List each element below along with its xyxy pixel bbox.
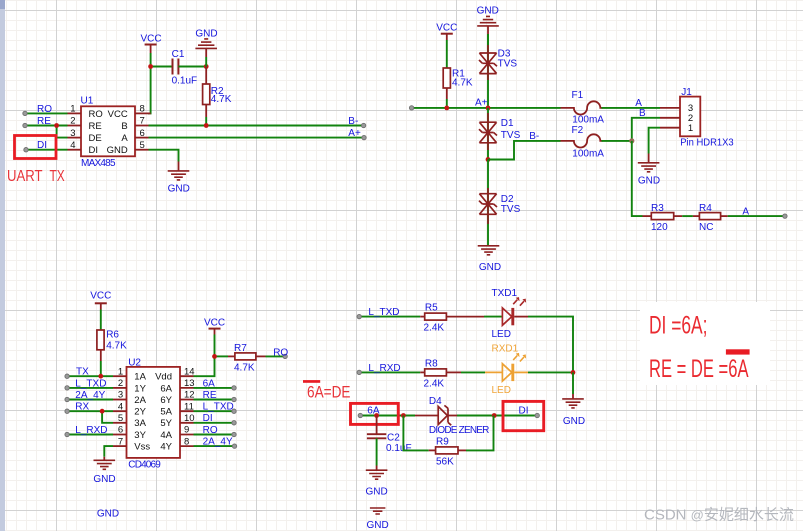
- U1 pin 1: [68, 104, 103, 120]
- svg-text:DI =6A;: DI =6A;: [649, 312, 708, 340]
- wire orange lead into LED: [485, 371, 502, 373]
- wire B- jog to F2: [488, 141, 561, 160]
- annotation red box around DI: [503, 401, 544, 430]
- wire 2A_4Y input: [67, 399, 113, 401]
- svg-text:120: 120: [651, 222, 668, 233]
- J1 pin 1: [660, 123, 693, 134]
- wire DI output: [194, 422, 235, 424]
- wire R4 to A endpoint: [728, 215, 785, 217]
- capacitor C2: [367, 416, 412, 455]
- svg-text:4A: 4A: [160, 430, 172, 441]
- wire C1 right to R2 node: [178, 66, 206, 68]
- svg-text:NC: NC: [699, 222, 713, 233]
- svg-text:GND: GND: [479, 262, 501, 273]
- svg-text:UART: UART: [7, 168, 43, 185]
- svg-text:GND: GND: [477, 6, 499, 17]
- svg-text:VCC: VCC: [108, 109, 128, 120]
- svg-text:DIODE ZENER: DIODE ZENER: [429, 425, 490, 436]
- svg-text:C1: C1: [172, 49, 185, 60]
- svg-text:R6: R6: [106, 330, 119, 341]
- svg-text:2.4K: 2.4K: [424, 323, 445, 334]
- svg-text:4.7K: 4.7K: [106, 341, 127, 352]
- svg-text:7: 7: [140, 116, 145, 127]
- node A+ endpoint: [362, 135, 366, 139]
- svg-text:DI: DI: [89, 145, 99, 156]
- svg-text:GND: GND: [195, 28, 217, 39]
- resistor R6: [97, 330, 127, 362]
- svg-text:RE: RE: [203, 390, 217, 401]
- svg-text:3: 3: [118, 390, 123, 401]
- junction D-column/A+: [486, 106, 491, 111]
- svg-text:0.1uF: 0.1uF: [386, 443, 412, 454]
- node RE endpoint (U2): [232, 397, 236, 401]
- resistor R3: [643, 203, 683, 233]
- wire RO output: [194, 434, 235, 436]
- wire pin7 to ground: [104, 446, 113, 457]
- wire VCC to R1: [446, 40, 448, 68]
- svg-text:L_TXD: L_TXD: [75, 378, 106, 389]
- svg-text:8: 8: [140, 104, 145, 115]
- node A+ line left endpoint: [409, 106, 413, 110]
- svg-text:4.7K: 4.7K: [452, 78, 473, 89]
- node RX endpoint: [65, 409, 69, 413]
- wire R8 to LED RXD1: [461, 371, 485, 373]
- svg-text:L_TXD: L_TXD: [203, 402, 234, 413]
- wire R9 branch down-left: [403, 416, 428, 451]
- wire F2 to B junction: [602, 140, 632, 142]
- junction B net: [629, 138, 634, 143]
- wire RE input: [25, 125, 68, 127]
- annotation white panel (right): [640, 302, 770, 385]
- U2 pin 6: [113, 425, 189, 441]
- svg-text:A: A: [742, 206, 749, 217]
- svg-text:TXD1: TXD1: [492, 288, 518, 299]
- svg-text:2Y: 2Y: [134, 407, 146, 418]
- svg-text:D1: D1: [501, 118, 514, 129]
- wire R7 to RO endpoint: [266, 355, 286, 357]
- svg-text:2: 2: [118, 378, 123, 389]
- junction at C1/R2/GND: [204, 64, 209, 69]
- svg-text:6: 6: [140, 128, 145, 139]
- wire GND to D3: [487, 34, 489, 45]
- node L_TXD endpoint (LED): [357, 314, 361, 318]
- junction RX/pin5: [100, 409, 105, 414]
- resistor R7: [228, 343, 266, 374]
- wire VCC to R7 node: [214, 335, 216, 357]
- svg-text:R7: R7: [234, 343, 247, 354]
- svg-text:2.4K: 2.4K: [424, 379, 445, 390]
- annotation red box around 6A: [351, 403, 399, 424]
- node TX endpoint: [65, 374, 69, 378]
- wire LED TXD1 lead: [514, 316, 528, 318]
- svg-text:L_RXD: L_RXD: [368, 363, 400, 374]
- svg-text:TVS: TVS: [501, 130, 521, 141]
- svg-text:R4: R4: [699, 203, 712, 214]
- svg-text:RE: RE: [89, 121, 102, 132]
- svg-text:1Y: 1Y: [134, 383, 146, 394]
- svg-text:VCC: VCC: [90, 291, 111, 302]
- svg-text:2A_4Y: 2A_4Y: [203, 437, 233, 448]
- diode D2 TVS: [479, 160, 521, 246]
- svg-text:B: B: [639, 108, 646, 119]
- wire A+ from pin6: [149, 137, 365, 139]
- wire R1 to A+ line: [446, 99, 448, 108]
- wire column to ground: [572, 372, 574, 394]
- svg-text:100mA: 100mA: [572, 115, 604, 126]
- svg-text:TVS: TVS: [498, 58, 518, 69]
- ground (below D2): [478, 246, 501, 273]
- resistor R2: [203, 67, 232, 118]
- svg-text:GND: GND: [107, 145, 128, 156]
- annotation overbar (RE=DE=6A): [726, 349, 750, 354]
- wire VCC node down to U1 pin8: [148, 67, 151, 114]
- connector J1 body: [680, 87, 734, 149]
- svg-text:F1: F1: [572, 90, 584, 101]
- wire TXD1 to GND column: [528, 317, 573, 373]
- svg-text:TX: TX: [50, 168, 65, 185]
- wire pin5 to ground: [149, 150, 179, 162]
- svg-text:3A: 3A: [134, 418, 146, 429]
- svg-text:RX: RX: [75, 402, 89, 413]
- svg-text:5A: 5A: [160, 407, 172, 418]
- svg-text:LED: LED: [492, 329, 511, 340]
- U1 pin 6: [121, 128, 148, 144]
- wire LED RXD1 lead: [514, 371, 528, 373]
- svg-text:A+: A+: [348, 128, 361, 139]
- U1 pin 2: [68, 116, 102, 132]
- wire VCC to C1 node: [150, 53, 152, 67]
- svg-text:DI: DI: [519, 406, 529, 417]
- svg-text:GND: GND: [168, 183, 190, 194]
- power port VCC (above R1): [436, 22, 457, 40]
- wire RX to pin5 jog: [102, 411, 113, 423]
- node 2A_4Y endpoint (U2): [232, 444, 236, 448]
- node RO endpoint (U2): [232, 432, 236, 436]
- resistor R4: [693, 203, 728, 233]
- svg-text:GND: GND: [563, 416, 585, 427]
- svg-text:DI: DI: [37, 140, 47, 151]
- node 6A endpoint (bottom): [358, 413, 362, 417]
- node DI endpoint (bottom): [535, 413, 539, 417]
- svg-text:1A: 1A: [134, 372, 146, 383]
- svg-text:U1: U1: [81, 95, 94, 106]
- svg-text:3: 3: [70, 128, 75, 139]
- U2 pin 2: [113, 378, 195, 394]
- svg-text:DE: DE: [89, 133, 102, 144]
- wire D4 to DI endpoint: [457, 415, 537, 417]
- wire 6A row left: [360, 415, 415, 417]
- power port VCC (top-left): [140, 34, 161, 54]
- ground (bottom stray): [366, 508, 388, 531]
- LED TXD1: [492, 288, 527, 340]
- node L_RXD endpoint: [65, 432, 69, 436]
- capacitor C1: [172, 49, 198, 87]
- svg-text:5Y: 5Y: [160, 418, 172, 429]
- svg-text:100mA: 100mA: [572, 149, 604, 160]
- node RO endpoint: [23, 111, 27, 115]
- svg-text:RO: RO: [203, 425, 218, 436]
- transistor-array U2 CD4069 body: [127, 358, 181, 471]
- svg-text:6: 6: [118, 425, 123, 436]
- power port GND (above D3, inverted): [477, 6, 499, 34]
- svg-text:VCC: VCC: [436, 22, 457, 33]
- svg-text:A: A: [635, 98, 642, 109]
- U2 pin 4: [113, 401, 194, 417]
- svg-text:C2: C2: [387, 433, 400, 444]
- svg-text:GND: GND: [366, 520, 388, 531]
- junction VCC/R7: [212, 354, 217, 359]
- wire 6A output: [194, 387, 235, 389]
- svg-text:Vss: Vss: [134, 442, 150, 453]
- node 6A endpoint: [232, 386, 236, 390]
- wire C1 left: [151, 66, 172, 68]
- svg-text:4.7K: 4.7K: [211, 94, 232, 105]
- wire TX input: [67, 375, 113, 377]
- wire node to R7: [215, 355, 229, 357]
- wire A+ line: [412, 107, 561, 109]
- junction R6/TX: [98, 374, 103, 379]
- wire R3 to R4: [682, 215, 693, 217]
- annotation overbar (6A=DE): [303, 380, 320, 383]
- resistor R8: [420, 358, 461, 389]
- svg-text:TX: TX: [76, 367, 89, 378]
- wire R2 bottom to B line: [205, 117, 207, 126]
- svg-text:R5: R5: [425, 303, 438, 314]
- wire RE-DE tie: [57, 126, 68, 138]
- svg-text:CD4069: CD4069: [128, 460, 161, 471]
- wire 2A_4Y output: [194, 445, 235, 447]
- node L_RXD endpoint (LED): [357, 370, 361, 374]
- wire R6 to TX line: [100, 361, 102, 376]
- LED RXD1: [492, 344, 527, 396]
- svg-text:4.7K: 4.7K: [234, 363, 255, 374]
- svg-text:6A=DE: 6A=DE: [307, 384, 351, 402]
- wire L_RXD input: [67, 434, 113, 436]
- svg-text:1: 1: [688, 123, 693, 134]
- wire R9 up to DI row: [466, 416, 494, 451]
- svg-text:6A: 6A: [203, 378, 216, 389]
- svg-text:4: 4: [118, 401, 123, 412]
- node L_TXD endpoint: [65, 386, 69, 390]
- svg-text:Pin HDR1X3: Pin HDR1X3: [680, 138, 734, 149]
- node 2A_4Y endpoint: [65, 397, 69, 401]
- svg-text:3Y: 3Y: [134, 430, 146, 441]
- wire DI input: [26, 149, 68, 151]
- svg-text:VCC: VCC: [140, 34, 161, 45]
- U2 pin 7: [113, 436, 189, 452]
- wire J1 pin1 to ground: [649, 128, 660, 154]
- diode D4 zener: [415, 396, 489, 436]
- svg-text:L_RXD: L_RXD: [75, 425, 107, 436]
- wire VCC to R6: [100, 310, 102, 331]
- fuse F2: [561, 125, 605, 159]
- wire B junction down to R3: [632, 141, 643, 216]
- wire R7 node down to U2 pin14: [194, 356, 215, 376]
- wire B up to J1 pin2: [632, 118, 660, 141]
- wire L_TXD output: [194, 410, 235, 412]
- U1 pin 7: [121, 116, 148, 132]
- wire F1 to J1 pin3: [602, 107, 661, 109]
- wire RE output: [194, 399, 235, 401]
- U2 pin 3: [113, 390, 195, 406]
- svg-text:B-: B-: [348, 116, 358, 127]
- wire L_TXD to R5: [359, 316, 420, 318]
- svg-text:2: 2: [70, 116, 75, 127]
- svg-text:0.1uF: 0.1uF: [172, 76, 198, 87]
- svg-text:1: 1: [70, 104, 75, 115]
- node RO endpoint (R7): [283, 354, 287, 358]
- svg-text:GND: GND: [97, 509, 119, 520]
- junction RE/DE: [54, 123, 59, 128]
- svg-text:VCC: VCC: [204, 317, 225, 328]
- svg-text:2A: 2A: [134, 395, 146, 406]
- svg-text:4Y: 4Y: [160, 442, 172, 453]
- diode D1 TVS: [479, 108, 521, 160]
- svg-text:RE: RE: [37, 116, 51, 127]
- svg-text:B-: B-: [529, 131, 539, 142]
- junction R2/B: [204, 123, 209, 128]
- ground (C2): [365, 466, 387, 498]
- diode D3 TVS: [479, 34, 517, 108]
- svg-text:Vdd: Vdd: [155, 372, 172, 383]
- junction R9 branch left: [401, 413, 406, 418]
- svg-text:R8: R8: [425, 358, 438, 369]
- ground (U1 pin5): [168, 162, 190, 195]
- svg-text:DI: DI: [203, 413, 213, 424]
- svg-text:A: A: [121, 133, 128, 144]
- svg-text:R9: R9: [436, 436, 449, 447]
- junction at VCC/C1: [148, 64, 153, 69]
- U1 pin 4: [68, 140, 99, 156]
- svg-text:R3: R3: [651, 203, 664, 214]
- svg-text:GND: GND: [365, 486, 387, 497]
- svg-text:MAX485: MAX485: [81, 158, 116, 169]
- J1 pin 3: [660, 103, 693, 114]
- wire RXD1 to GND column: [528, 371, 573, 373]
- wire L_TXD input: [67, 387, 113, 389]
- wire B- from pin7: [149, 125, 364, 127]
- resistor R9: [429, 436, 466, 467]
- svg-text:RO: RO: [37, 104, 52, 115]
- wire RO input: [25, 112, 68, 114]
- svg-text:4: 4: [70, 140, 75, 151]
- svg-text:5: 5: [140, 140, 145, 151]
- junction R1/A+: [444, 106, 449, 111]
- svg-text:L_TXD: L_TXD: [368, 307, 399, 318]
- op-amp U1 MAX485 body: [81, 95, 136, 169]
- power port VCC (above R7): [204, 317, 225, 334]
- svg-text:1: 1: [118, 366, 123, 377]
- svg-text:6A: 6A: [160, 383, 172, 394]
- U1 pin 8: [108, 104, 151, 120]
- wire RX input: [67, 410, 113, 412]
- junction C2 branch: [374, 413, 379, 418]
- svg-text:RO: RO: [273, 348, 288, 359]
- node B- endpoint: [361, 123, 365, 127]
- junction D1/B-: [486, 157, 491, 162]
- U1 pin 5: [107, 140, 149, 156]
- svg-text:GND: GND: [638, 175, 660, 186]
- svg-text:D4: D4: [429, 396, 442, 407]
- node RE endpoint: [23, 123, 27, 127]
- svg-text:B: B: [121, 121, 127, 132]
- wire R5 to LED: [484, 316, 502, 318]
- svg-text:LED: LED: [492, 385, 511, 396]
- svg-text:J1: J1: [681, 87, 692, 98]
- U2 pin 5: [113, 413, 195, 429]
- left panel band: [0, 0, 5, 531]
- power port GND (above R2, inverted): [195, 28, 217, 57]
- svg-text:6Y: 6Y: [160, 395, 172, 406]
- junction LED GND column: [571, 370, 576, 375]
- U2 right pin leads: [180, 376, 194, 446]
- wire C2 to ground: [376, 438, 378, 465]
- annotation red box around DI: [15, 136, 57, 159]
- wire L_RXD to R8: [359, 371, 420, 373]
- svg-text:7: 7: [118, 436, 123, 447]
- svg-text:RXD1: RXD1: [492, 344, 519, 355]
- svg-text:56K: 56K: [436, 457, 454, 468]
- junction R9 branch right: [492, 413, 497, 418]
- left panel top square: [0, 0, 5, 9]
- svg-text:U2: U2: [128, 358, 141, 369]
- svg-text:5: 5: [118, 413, 123, 424]
- svg-text:GND: GND: [93, 474, 115, 485]
- U1 pin 3: [68, 128, 102, 144]
- fuse F1: [561, 90, 605, 126]
- svg-text:RO: RO: [89, 109, 103, 120]
- node A endpoint: [783, 214, 787, 218]
- ground (U2 pin7): [93, 457, 115, 485]
- node DI endpoint (U2): [232, 421, 236, 425]
- svg-text:CSDN @安妮细水长流: CSDN @安妮细水长流: [644, 507, 794, 524]
- wire GND stub to node: [205, 57, 207, 67]
- ground (J1 pin1): [638, 154, 660, 187]
- svg-text:RE = DE =6A: RE = DE =6A: [649, 355, 749, 383]
- U2 pin 1: [113, 366, 195, 382]
- node DI endpoint: [24, 148, 28, 152]
- resistor R1: [443, 68, 473, 99]
- node L_TXD endpoint (U2): [232, 409, 236, 413]
- resistor R5: [420, 303, 484, 334]
- J1 pin 2: [660, 113, 693, 124]
- svg-text:F2: F2: [572, 125, 584, 136]
- svg-text:A+: A+: [475, 97, 488, 108]
- ground (LED column): [562, 394, 585, 427]
- power port VCC (above R6): [90, 291, 111, 310]
- svg-text:2A_4Y: 2A_4Y: [75, 390, 105, 401]
- svg-text:TVS: TVS: [501, 204, 521, 215]
